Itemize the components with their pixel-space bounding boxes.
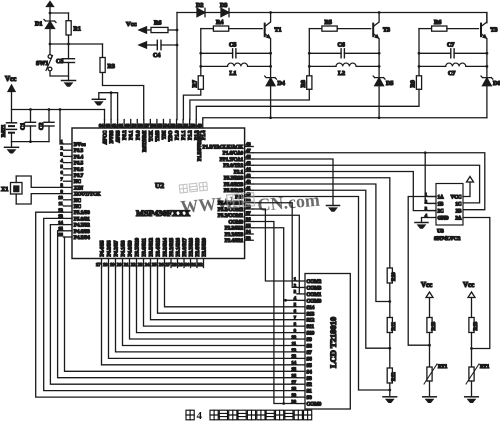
svg-text:COM1: COM1	[307, 293, 322, 298]
U2 pin 1 DVcc	[64, 143, 73, 145]
svg-text:18: 18	[291, 386, 296, 391]
resistor R7	[183, 29, 203, 120]
U2 pin 29 P3.0/S17	[183, 259, 185, 268]
U2 pin 48 P1.5/TACLK/ACK	[245, 146, 254, 148]
thermistor RT1	[469, 367, 474, 381]
U2 pin 11 NC	[64, 205, 73, 207]
wire U2 pin 14 to LCD	[50, 225, 297, 385]
svg-text:LCD T218010: LCD T218010	[328, 317, 338, 368]
junction D4/D5 on return bus	[269, 116, 272, 119]
ground	[423, 396, 437, 398]
svg-text:S9: S9	[307, 338, 313, 343]
svg-text:S13: S13	[307, 312, 315, 317]
wire U2 pin 18 to LCD	[109, 268, 298, 359]
svg-text:S12: S12	[307, 319, 315, 324]
U2 pin 51 P1.2	[189, 120, 191, 129]
wire P1.6 net to U3 1B/2B	[253, 153, 485, 210]
U2 pin 17 P4.4/S5	[101, 259, 103, 268]
resistor R12	[387, 368, 392, 383]
caption 图4 智能热量表的电气原理图 (drawn glyphs)	[186, 410, 312, 422]
top rail wire	[177, 12, 197, 14]
capacitor C2	[44, 110, 54, 142]
svg-text:S3: S3	[307, 377, 313, 382]
wire AVCC to rail	[104, 110, 106, 120]
power rail	[12, 109, 105, 111]
svg-text:VCC: VCC	[451, 195, 462, 200]
U2 pin 23 P3.6/S11	[143, 259, 145, 268]
U2 pin 34 P2.2/S23	[245, 233, 254, 235]
wire U2 pin 26 to LCD	[165, 268, 298, 307]
U2 pin 52 P1.1	[182, 120, 184, 129]
svg-text:R12: R12	[392, 372, 397, 381]
wire U2 pin 19 to LCD	[116, 268, 298, 352]
LCD pin 4 COM0	[297, 299, 305, 301]
inductor L2	[309, 63, 379, 66]
svg-text:R10: R10	[392, 272, 397, 281]
svg-text:S14: S14	[307, 306, 315, 311]
junction T1 collector at rail	[269, 11, 272, 14]
svg-text:U3: U3	[437, 229, 444, 235]
junction nodes	[49, 43, 52, 46]
junction T3 collector at rail	[378, 11, 381, 14]
junction nodes block L1	[199, 52, 202, 55]
U2 pin 37 P5.2/COM1	[245, 214, 254, 216]
U3 pin 4 GND	[428, 217, 436, 219]
U2 pin 7 NC	[64, 180, 73, 182]
wire pin38 COM2 to LCD1	[253, 209, 297, 281]
wire pin37 COM1 to LCD3	[253, 215, 299, 294]
U2 pin 61 P6.2	[123, 120, 125, 129]
U2 pin 64 AVCC	[104, 120, 106, 129]
svg-text:1B: 1B	[438, 202, 445, 207]
LCD pin 2 COM3	[297, 286, 305, 288]
capacitor C1	[26, 110, 36, 142]
U2 pin 63 DVSS	[110, 120, 112, 129]
diode D2	[197, 8, 221, 16]
U3 pin 1 1A	[428, 196, 436, 198]
U2 pin 43 P5.7/R33	[245, 177, 254, 179]
LCD pin 1 COM2	[297, 280, 305, 282]
svg-text:19: 19	[291, 392, 296, 397]
diode D3	[221, 8, 487, 22]
LCD pin 15 S4	[297, 370, 305, 372]
svg-text:S1: S1	[307, 390, 313, 395]
U2 pin 28 P3.1/S16	[177, 259, 179, 268]
svg-text:10: 10	[291, 334, 296, 339]
svg-text:COM2: COM2	[307, 280, 322, 285]
switch SW1	[46, 44, 69, 76]
U2 pin 21 P4.0/S9	[129, 259, 131, 268]
svg-text:Vcc: Vcc	[421, 281, 432, 289]
transistor T1	[265, 13, 271, 78]
LCD pin 9 S10	[297, 332, 305, 334]
U2 pin 3 P6.4	[64, 155, 73, 157]
svg-text:RT1: RT1	[438, 365, 448, 370]
U2 pin 13 P5.0/S1	[64, 217, 73, 219]
resistor R13	[469, 318, 474, 333]
thermistor RT1	[427, 367, 432, 381]
LCD pin 17 S2	[297, 383, 305, 385]
U2 pin 26 P3.3/S14	[164, 259, 166, 268]
wire pin36 COM0 to LCD20	[253, 222, 297, 404]
svg-text:12: 12	[291, 347, 296, 352]
svg-text:16: 16	[291, 373, 296, 378]
U2 pin 40 P03	[245, 196, 254, 198]
zener diode return bus	[203, 118, 487, 120]
diode D4 (zener)	[265, 76, 277, 118]
U2 pin 14 P4.7/S2	[64, 224, 73, 226]
U2 pin 33 P2.4/S21	[245, 239, 254, 241]
resistor R10	[387, 268, 392, 283]
ground	[465, 396, 479, 398]
LCD pin 14 S5	[297, 364, 305, 366]
U2 pin 4 P6.5	[64, 162, 73, 164]
U2 pin 55 TDI	[162, 120, 164, 129]
U3 1A to middle branch	[408, 197, 436, 346]
resistor R9	[196, 29, 421, 120]
U3 VCC to Vcc arrow	[463, 182, 470, 197]
U2 pin 45 P2.0/TA2	[245, 164, 254, 166]
svg-text:SN74LVC2: SN74LVC2	[434, 236, 461, 242]
U2 pin 62 AVSS	[117, 120, 119, 129]
svg-text:R13: R13	[432, 321, 437, 330]
svg-text:S7: S7	[307, 351, 313, 356]
svg-text:20: 20	[291, 399, 296, 404]
wire pin43 to ladder top	[253, 178, 390, 268]
U2 pin 10 NC	[64, 199, 73, 201]
wire U2 pin 20 to LCD	[123, 268, 298, 346]
svg-text:CN.com: CN.com	[257, 190, 321, 215]
node P1.0 vertical wire	[176, 13, 178, 120]
LCD pin 18 S1	[297, 390, 305, 392]
U2 pin 41 P5.5/R13	[245, 189, 254, 191]
svg-text:COM3: COM3	[307, 286, 322, 291]
LCD T218010	[305, 274, 350, 410]
LCD pin 19 S0	[297, 396, 305, 398]
wire pin40 to ladder bottom	[253, 197, 390, 391]
U2 pin 56 TMS	[156, 120, 158, 129]
svg-text:2B: 2B	[456, 209, 463, 214]
ground	[327, 205, 340, 207]
svg-text:Vcc: Vcc	[463, 281, 474, 289]
U2 pin 5 P6.6	[64, 168, 73, 170]
U2 pin 58 RST/NMI	[143, 120, 145, 129]
U2 pin 2 P6.3	[64, 149, 73, 151]
wire U2 pin 23 to LCD	[144, 268, 298, 327]
U2 pin 54 TDO	[169, 120, 171, 129]
U2 pin 50 P1.3	[195, 120, 197, 129]
wire pin39 COM3 to LCD2	[253, 203, 297, 288]
svg-text:S2: S2	[307, 383, 313, 388]
U2 pin 30 P2.7/S18	[190, 259, 192, 268]
buffer U3 SN74LVC2	[436, 184, 463, 226]
LCD pin 7 S12	[297, 319, 305, 321]
LCD pin 3 COM1	[297, 293, 305, 295]
U2 pin 36 COM0	[245, 221, 254, 223]
svg-text:15: 15	[291, 367, 296, 372]
svg-text:S11: S11	[307, 325, 315, 330]
capacitor C3	[63, 44, 75, 81]
svg-text:S4: S4	[307, 370, 313, 375]
svg-text:17: 17	[291, 380, 296, 385]
battery BAT1	[7, 123, 17, 142]
wire U2 pin 24 to LCD	[151, 268, 298, 320]
U2 pin 49 P1.4	[202, 120, 204, 129]
resistor R3	[100, 44, 144, 120]
U3 2A to right branch	[463, 218, 490, 349]
U2 pin 42 P5.6/R23	[245, 183, 254, 185]
ground ladder	[383, 396, 397, 398]
U2 pin 39 P5.4/COM3	[245, 202, 254, 204]
crystal X1	[11, 176, 64, 204]
Vcc net label arrow + resistor R6	[126, 21, 177, 33]
U2 pin 20 P4.1/S8	[122, 259, 124, 268]
U2 pin 59 P6.0	[136, 120, 138, 129]
capacitor C7	[419, 49, 487, 58]
resistor R11	[387, 318, 392, 333]
wire	[50, 12, 69, 14]
svg-text:S6: S6	[307, 357, 313, 362]
U2 pin 18 P4.3/S6	[108, 259, 110, 268]
svg-text:GND: GND	[438, 216, 450, 221]
svg-text:1A: 1A	[438, 195, 445, 200]
svg-text:2A: 2A	[455, 216, 462, 221]
U2 pin 47 P1.6/CA0	[245, 152, 254, 154]
svg-text:COM0: COM0	[307, 299, 322, 304]
svg-text:13: 13	[291, 354, 296, 359]
node wire	[50, 43, 103, 45]
resistor R4	[201, 26, 262, 31]
svg-text:R13: R13	[474, 321, 479, 330]
svg-text:4: 4	[197, 410, 203, 422]
wire pin41 to ladder tap2	[253, 190, 390, 348]
LCD pin 12 S7	[297, 351, 305, 353]
inductor L3	[419, 63, 487, 66]
wire U2 pin 17 to LCD	[102, 268, 298, 365]
Vcc symbol top-left	[47, 2, 54, 14]
LCD pin 5 S14	[297, 306, 305, 308]
resistor R8	[190, 29, 312, 120]
resistor R5	[309, 26, 370, 31]
microcontroller U2	[72, 128, 245, 259]
wire pin44 to U3 2C	[253, 172, 436, 211]
junction nodes block L3	[418, 52, 421, 55]
U2 pin 12 P5.1/S0	[64, 211, 73, 213]
diode D1 (zener)	[44, 13, 56, 44]
U2 pin 8 XIN	[64, 186, 73, 188]
wire U2 pin 22 to LCD	[137, 268, 298, 333]
LCD pin 16 S3	[297, 377, 305, 379]
bottom rail / wire	[12, 141, 50, 143]
ground	[62, 81, 76, 87]
LCD pin 6 S13	[297, 312, 305, 314]
U2 pin 35 P2.3/S22	[245, 227, 254, 229]
svg-text:S5: S5	[307, 364, 313, 369]
LCD pin 11 S8	[297, 345, 305, 347]
LCD pin 20 COM0	[297, 403, 305, 405]
LCD pin 8 S11	[297, 325, 305, 327]
node junction below Vcc	[49, 12, 52, 15]
diode D5 (zener)	[373, 76, 385, 118]
U3 GND to ground	[422, 218, 429, 223]
svg-text:S10: S10	[307, 332, 315, 337]
watermark	[179, 182, 320, 217]
capacitor C6	[309, 49, 379, 58]
wire U2 pin 15 to LCD	[58, 231, 297, 378]
LCD pin 13 S6	[297, 357, 305, 359]
ground	[5, 142, 19, 154]
svg-text:14: 14	[291, 360, 296, 365]
wire pin35 to LCD4	[253, 228, 284, 404]
wire pin46 to ground	[253, 159, 333, 206]
diode D6 (zener)	[481, 76, 493, 118]
net arrow + capacitor C4	[139, 40, 177, 49]
svg-text:3: 3	[294, 289, 297, 294]
U3 pin 3 2C	[428, 210, 436, 212]
U2 pin 60 P6.1	[130, 120, 132, 129]
resistor R13	[427, 318, 432, 333]
ground (analog)	[92, 98, 105, 100]
svg-text:1C: 1C	[455, 202, 462, 207]
U2 pin 22 P3.7/S10	[136, 259, 138, 268]
wire pin45 to U3 1C	[253, 165, 479, 203]
transistor T3	[373, 13, 379, 78]
U2 pin 6 P6.7	[64, 174, 73, 176]
wire DVcc feed	[60, 110, 64, 145]
U3 pin 2 1B	[428, 203, 436, 205]
U2 pin 24 P3.5/S12	[150, 259, 152, 268]
inductor L1	[201, 63, 271, 66]
wire pin42 to ladder tap1	[253, 184, 390, 302]
svg-text:WWW.: WWW.	[180, 192, 238, 217]
svg-text:11: 11	[292, 341, 297, 346]
U2 pin 57 TCK	[149, 120, 151, 129]
svg-text:S0: S0	[307, 396, 313, 401]
svg-text:R11: R11	[392, 322, 397, 331]
wire U2 pin 13 to LCD	[44, 218, 297, 390]
wire U2 pin 21 to LCD	[130, 268, 298, 340]
Vcc symbol (battery rail)	[5, 75, 16, 123]
U2 pin 27 P3.2/S15	[170, 259, 172, 268]
wire U2 pin 16 to LCD	[64, 237, 298, 371]
U2 pin 31 P2.6/S19	[196, 259, 198, 268]
U2 pin 32 P2.5/S20	[203, 259, 205, 268]
U2 pin 46 PP1.7/CA1	[245, 158, 254, 160]
U2 pin 44 P2.1	[245, 171, 254, 173]
svg-text:2C: 2C	[438, 209, 445, 214]
transistor T3	[481, 13, 487, 78]
resistor R6	[419, 26, 479, 31]
LCD pin 10 S9	[297, 338, 305, 340]
resistor R1	[66, 13, 71, 44]
U2 pin 38 P5.3/COM2	[245, 208, 254, 210]
U2 pin 9 XOUT/TCK	[64, 193, 73, 195]
svg-text:RT1: RT1	[480, 365, 490, 370]
U2 pin 53 P1.0	[176, 120, 178, 129]
svg-text:S8: S8	[307, 345, 313, 350]
U2 pin 25 P3.4/S13	[157, 259, 159, 268]
wire U2 pin 25 to LCD	[158, 268, 298, 314]
svg-text:COM0: COM0	[307, 403, 322, 408]
U2 pin 19 P4.2/S7	[115, 259, 117, 268]
capacitor C5	[201, 49, 271, 58]
wire U2 pin 12 to LCD	[36, 212, 297, 397]
junction nodes block L2	[308, 52, 311, 55]
U2 pin 15 P4.6/S3	[64, 230, 73, 232]
U2 pin 16 P4.5/S4	[64, 236, 73, 238]
wire DVSS/AVSS to ground	[99, 93, 118, 120]
